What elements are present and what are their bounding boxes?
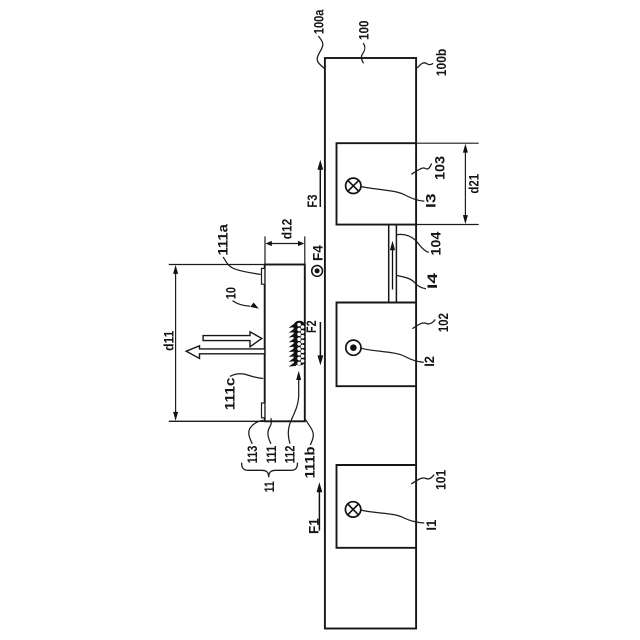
force arrow F3 <box>319 167 321 208</box>
dimension d12 arrow line <box>268 243 301 245</box>
magnet 101 <box>337 465 417 548</box>
mover core 111 <box>265 265 305 422</box>
label I1 leader <box>361 510 424 523</box>
svg-text:F3: F3 <box>304 194 320 207</box>
label 100 leader <box>361 43 365 63</box>
svg-text:d11: d11 <box>161 330 177 350</box>
force symbol F4 (dot in circle) <box>312 266 323 277</box>
dimension d21 arrow line <box>464 149 466 219</box>
label 103 leader <box>411 164 431 175</box>
coil 112 <box>289 321 306 367</box>
label 112 leader arrow <box>288 378 298 444</box>
label 102 leader <box>412 320 435 329</box>
magnet 102 <box>337 303 417 387</box>
current symbol I3 (cross in circle) <box>346 178 361 193</box>
svg-text:I1: I1 <box>423 519 439 530</box>
label I3 leader <box>361 187 424 202</box>
svg-text:111b: 111b <box>302 447 318 479</box>
svg-text:112: 112 <box>282 445 298 463</box>
svg-text:F2: F2 <box>303 320 319 333</box>
current symbol I1 (cross in circle) <box>345 502 360 517</box>
label 101 leader <box>411 475 434 485</box>
svg-text:100: 100 <box>356 20 372 40</box>
svg-text:102: 102 <box>435 313 451 332</box>
conductor 104 <box>388 225 390 303</box>
label 104 leader <box>397 234 429 252</box>
force arrow F1 <box>318 489 320 531</box>
label 111c leader <box>230 374 263 379</box>
svg-text:I2: I2 <box>421 356 437 367</box>
svg-text:F4: F4 <box>309 245 325 261</box>
label 100a leader <box>317 36 325 69</box>
motion arrow left <box>186 346 265 359</box>
magnet 113 top <box>262 268 265 284</box>
svg-text:11: 11 <box>261 481 277 492</box>
current symbol I2 (dot in circle) <box>346 340 361 355</box>
svg-text:111: 111 <box>263 445 279 463</box>
svg-text:111a: 111a <box>214 224 230 256</box>
label 100b leader <box>417 63 433 68</box>
magnet 103 <box>337 143 417 224</box>
brace for 11 <box>242 463 298 478</box>
label 111a leader <box>223 257 261 274</box>
dimension d11 arrow line <box>175 270 177 416</box>
force arrow F2 <box>319 322 321 359</box>
svg-text:I4: I4 <box>424 273 440 289</box>
svg-text:111c: 111c <box>221 377 237 410</box>
label 111b leader <box>305 419 313 445</box>
svg-text:103: 103 <box>432 156 448 180</box>
dimension d12 extension lines <box>264 236 266 263</box>
stator yoke 100 <box>325 58 416 629</box>
svg-text:100a: 100a <box>311 9 327 34</box>
svg-text:113: 113 <box>244 445 260 463</box>
svg-text:d21: d21 <box>465 174 481 194</box>
label I4 leader <box>397 276 426 289</box>
svg-text:F1: F1 <box>306 518 322 534</box>
svg-text:104: 104 <box>428 231 444 255</box>
svg-text:100b: 100b <box>433 49 449 77</box>
dimension d11 extension lines <box>169 264 265 266</box>
dimension d21 extension lines <box>417 142 479 144</box>
label 111 leader <box>268 418 271 444</box>
svg-text:10: 10 <box>223 287 239 299</box>
svg-text:I3: I3 <box>423 193 439 208</box>
label 113 leader <box>249 420 264 443</box>
svg-text:101: 101 <box>432 470 448 490</box>
current arrow I4 <box>392 249 394 290</box>
label I2 leader <box>361 348 424 362</box>
svg-text:d12: d12 <box>278 219 294 240</box>
label 10 leader arrow <box>233 301 251 307</box>
motion arrow right <box>203 332 262 347</box>
magnet 113 bottom <box>262 403 265 418</box>
